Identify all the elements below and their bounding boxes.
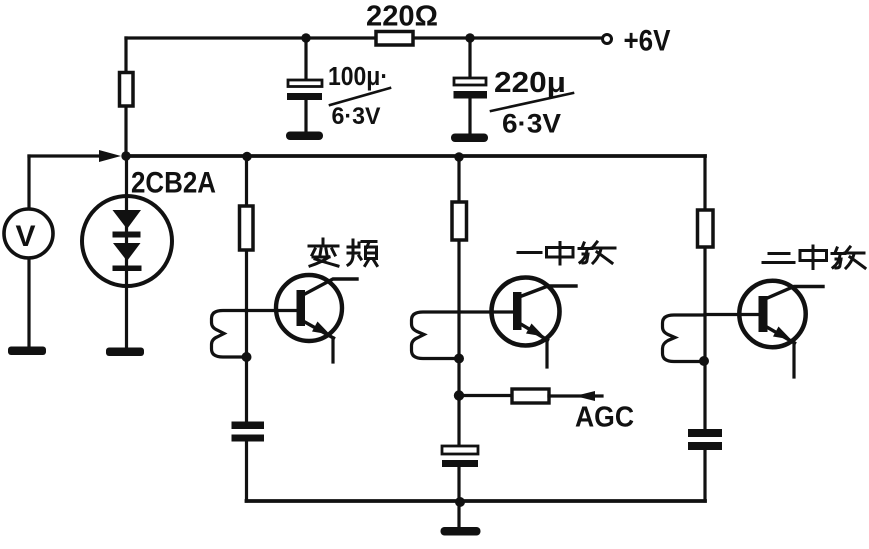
label erzhongfang char2 zhong — [800, 246, 827, 269]
node junction coil1 bottom — [242, 352, 252, 362]
Q3 emitter lead down — [792, 343, 795, 377]
node junction on top rail above C2 — [465, 33, 474, 42]
Q1 base wire — [246, 309, 298, 312]
AGC wire left — [459, 394, 512, 397]
wire through 2CB2A to ground — [125, 156, 128, 347]
node junction AGC tap — [454, 390, 464, 400]
transistor Q3 circle — [739, 281, 805, 347]
label yizhongfang char3 fang — [579, 242, 615, 263]
ground below 2CB2A — [106, 348, 144, 357]
Q3 emitter — [765, 326, 795, 343]
label yizhongfang char2 zhong — [547, 243, 574, 265]
wire from voltmeter to bus with arrow — [29, 154, 112, 157]
node junction coil3 bottom — [699, 356, 709, 366]
Q3 base wire — [705, 313, 760, 316]
main bus horizontal — [126, 154, 705, 158]
stage1 vertical wire lower — [245, 442, 248, 501]
resistor R6 AGC — [512, 389, 549, 403]
diode D1 bar — [113, 232, 141, 238]
slash under 100u — [330, 88, 390, 105]
AGC wire right — [549, 394, 602, 397]
diode D2 triangle — [113, 243, 141, 261]
bottom bus horizontal — [247, 499, 706, 503]
resistor R4 — [698, 210, 714, 247]
Q2 emitter — [519, 323, 548, 340]
Q2 emitter lead down — [545, 340, 548, 367]
stage2 vertical wire lower — [457, 467, 460, 527]
resistor R3 — [452, 202, 467, 240]
node junction bottom bus stage2 — [455, 497, 465, 507]
capacitor C1 top plate — [288, 80, 322, 87]
node junction on top rail above C1 — [301, 33, 310, 42]
diode D1 triangle — [113, 210, 142, 229]
label erzhongfang char3 fang — [832, 247, 865, 268]
svg-text:100μ·: 100μ· — [328, 63, 388, 91]
label erzhongfang char1 er — [763, 254, 794, 263]
capacitor C4 bottom plate — [442, 460, 478, 467]
slash under 220u — [491, 93, 573, 111]
capacitor C5 plate 2 — [688, 442, 722, 450]
capacitor C5 plate 1 — [688, 429, 722, 437]
label bianpin char2 — [348, 240, 377, 266]
voltmeter V circle — [4, 209, 53, 258]
transistor Q1 circle — [276, 275, 342, 341]
Q2 base wire — [459, 310, 514, 313]
svg-text:220Ω: 220Ω — [366, 1, 438, 33]
capacitor C3 plate 2 — [232, 435, 265, 442]
ground below C1 — [286, 132, 323, 141]
Q1 emitter arrowhead — [312, 322, 330, 335]
Q1 emitter — [303, 321, 334, 338]
stage3 top corner wire — [703, 156, 706, 429]
capacitor C2 top plate — [454, 78, 486, 85]
resistor R1 (left vertical) — [120, 73, 134, 107]
capacitor C4 top plate — [442, 446, 478, 454]
svg-text:+6V: +6V — [624, 25, 671, 58]
diode D2 bar — [113, 266, 142, 272]
AGC arrowhead pointing left — [575, 391, 595, 401]
stage3 vertical wire lower — [703, 450, 706, 501]
transistor Q2 circle — [492, 278, 560, 346]
svg-text:220μ: 220μ — [494, 67, 566, 99]
node junction coil2 bottom — [454, 354, 464, 364]
node junction bus left — [121, 151, 130, 160]
label bianpin char1 — [309, 239, 338, 266]
node junction bus stage2 — [454, 152, 463, 161]
svg-text:2CB2A: 2CB2A — [131, 167, 216, 200]
wire C2 to ground — [468, 98, 471, 134]
inductor L1 coil — [212, 311, 247, 358]
capacitor C3 plate 1 — [232, 422, 265, 430]
svg-text:6·3V: 6·3V — [332, 103, 381, 130]
capacitor C2 220u wire — [468, 38, 471, 78]
ground below C2 — [451, 134, 488, 143]
Q1 base bar — [297, 290, 306, 326]
resistor R2 — [240, 206, 254, 250]
label yizhongfang char1 yi — [518, 251, 541, 254]
Q3 collector — [765, 287, 823, 300]
Q1 emitter lead down — [331, 338, 334, 362]
wire left vertical from top rail to main bus — [124, 38, 127, 156]
arrowhead pointing right — [99, 150, 121, 162]
stage2 vertical wire upper — [457, 157, 460, 446]
ground below voltmeter — [8, 347, 46, 356]
wire C1 to ground — [304, 100, 307, 132]
capacitor C1 100u wire — [304, 38, 307, 80]
stage1 vertical wire upper — [245, 156, 248, 422]
terminal +6V open circle — [603, 35, 612, 44]
node junction bus stage1 — [242, 152, 251, 161]
capacitor C1 bottom plate — [287, 93, 322, 100]
wire top rail — [126, 36, 603, 39]
wire voltmeter bottom — [27, 258, 30, 347]
svg-text:6·3V: 6·3V — [502, 109, 561, 139]
Q2 emitter arrowhead — [526, 324, 544, 337]
Q3 emitter arrowhead — [773, 327, 791, 340]
resistor R5 220ohm horizontal — [376, 32, 413, 46]
Q2 collector — [519, 286, 576, 297]
ground below bottom bus — [441, 527, 481, 536]
diode pack 2CB2A circle — [82, 196, 172, 286]
wire voltmeter top — [27, 156, 30, 210]
Q3 base bar — [759, 296, 768, 332]
svg-text:V: V — [16, 220, 36, 253]
Q1 collector — [303, 279, 357, 295]
Q2 base bar — [513, 292, 522, 330]
capacitor C2 bottom plate — [454, 91, 488, 99]
inductor L2 coil — [412, 312, 460, 359]
svg-text:AGC: AGC — [575, 402, 634, 434]
inductor L3 coil — [663, 315, 706, 362]
